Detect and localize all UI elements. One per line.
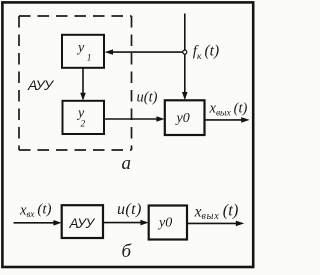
block UO top — [165, 100, 205, 135]
arrowhead into UO bottom — [140, 220, 148, 226]
svg-text:u(t): u(t) — [137, 90, 158, 106]
arrowhead into U1 — [105, 49, 114, 54]
svg-text:а: а — [122, 153, 132, 174]
wire f_k vertical — [184, 14, 186, 94]
arrowhead into AUU — [53, 220, 61, 226]
wire U1 to U2 — [82, 68, 84, 94]
block U2 — [63, 101, 105, 134]
arrowhead into U2 — [80, 93, 86, 101]
dashed box AUU boundary — [19, 16, 132, 150]
wire node to U1 — [112, 51, 183, 53]
wire UO output x_out — [205, 119, 243, 121]
wire U2 to UO (u(t)) — [104, 118, 158, 120]
svg-text:xвх (t): xвх (t) — [19, 202, 52, 219]
svg-text:2: 2 — [81, 120, 86, 130]
block U1 — [62, 35, 104, 68]
arrowhead into UO left — [156, 116, 164, 122]
svg-text:fк (t): fк (t) — [193, 43, 219, 62]
svg-text:у0: у0 — [175, 111, 190, 126]
svg-text:у: у — [76, 40, 85, 55]
svg-text:u(t): u(t) — [117, 201, 142, 218]
wire input bottom — [14, 222, 55, 224]
block AUU bottom — [62, 205, 103, 238]
block UO bottom — [149, 206, 187, 240]
svg-text:1: 1 — [87, 53, 92, 63]
svg-text:АУУ: АУУ — [27, 77, 55, 93]
border frame — [2, 2, 253, 267]
arrowhead output top — [241, 117, 249, 123]
svg-text:АУУ: АУУ — [69, 216, 96, 231]
node f_k junction — [183, 50, 187, 54]
arrowhead output bottom — [236, 221, 244, 227]
svg-text:б: б — [122, 241, 133, 262]
arrowhead into UO top — [182, 92, 188, 100]
wire output bottom — [187, 222, 237, 224]
svg-text:у0: у0 — [157, 216, 172, 231]
wire AUU to UO bottom (u(t)) — [103, 222, 142, 224]
